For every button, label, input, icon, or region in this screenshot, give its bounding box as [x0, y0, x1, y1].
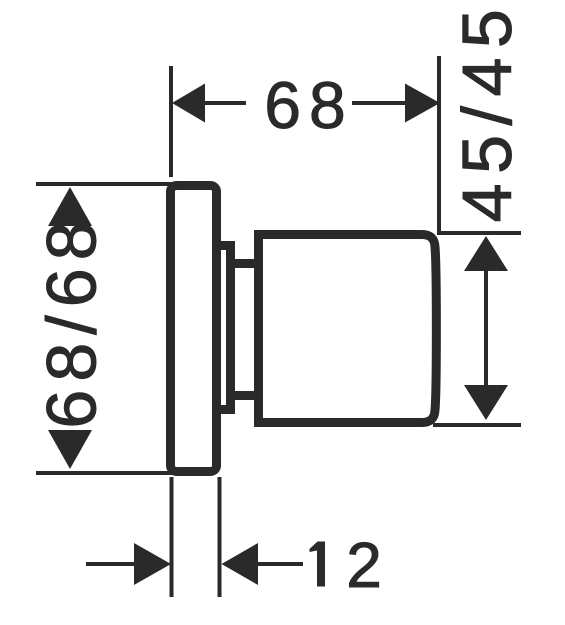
- dimension 12 (bottom): right-pointing arrow: [134, 543, 171, 585]
- dimension 68/68 (left): bottom extension line: [36, 471, 173, 475]
- dimension 12 (bottom): left-pointing arrow: [222, 543, 259, 585]
- svg-text:2: 2: [346, 529, 382, 601]
- extension line top-left (vertical, above plate): [169, 66, 173, 177]
- dimension 68 (top): right arrow: [405, 84, 440, 123]
- svg-text:68: 68: [264, 68, 353, 142]
- dimension 45/45 (right): top extension line: [437, 231, 521, 235]
- dimension 45/45 (right): up arrow: [464, 236, 508, 271]
- dimension 68/68 (left): up arrow: [48, 187, 92, 226]
- dimension 12 (bottom): left extension line: [170, 477, 174, 597]
- dimension 68 (top): left arrow: [172, 84, 205, 123]
- dimension 68 (top): left lead line: [205, 101, 246, 105]
- stem (inner step between sleeve and handle): [222, 264, 259, 396]
- dimension 12 (bottom): label: [310, 542, 326, 587]
- handle (knob, side view): [259, 235, 437, 423]
- dimension 45/45 (right): dimension line: [484, 271, 488, 386]
- sleeve (step attached to wall plate): [208, 246, 231, 410]
- dimension 12 (bottom): right lead line: [258, 562, 303, 566]
- dimension 68/68 (left): top extension line: [36, 182, 173, 186]
- dimension 45/45 (right): bottom extension line: [433, 423, 521, 427]
- svg-text:68/68: 68/68: [33, 213, 111, 428]
- dimension 12 (bottom): left lead line: [86, 562, 137, 566]
- dimension 12 (bottom): right extension line: [218, 477, 222, 597]
- svg-text:45/45: 45/45: [448, 0, 526, 222]
- dimension 45/45 (right): down arrow: [464, 385, 508, 420]
- dimension 68 (top): right lead line: [352, 101, 405, 105]
- extension line top-right (vertical, above handle): [437, 56, 441, 231]
- dimension 68/68 (left): down arrow: [48, 430, 92, 469]
- wall plate (escutcheon, side view): [171, 186, 217, 472]
